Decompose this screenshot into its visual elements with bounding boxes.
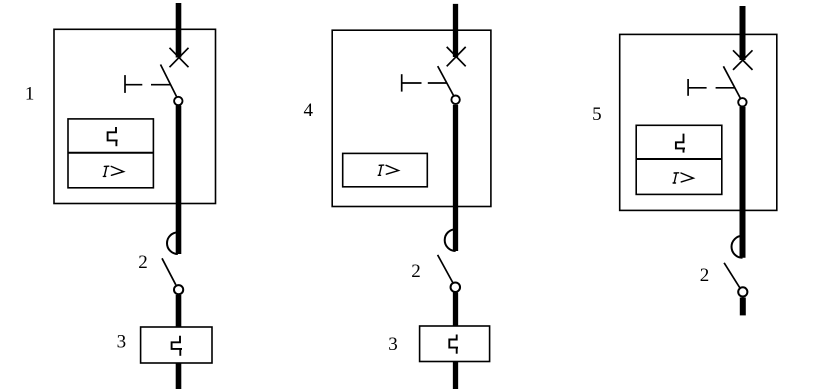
svg-text:3: 3 bbox=[388, 334, 398, 355]
svg-text:3: 3 bbox=[117, 331, 127, 352]
svg-text:4: 4 bbox=[304, 100, 314, 121]
svg-text:2: 2 bbox=[138, 252, 148, 273]
svg-text:2: 2 bbox=[700, 265, 710, 286]
svg-text:5: 5 bbox=[592, 104, 602, 125]
svg-text:1: 1 bbox=[25, 84, 35, 105]
svg-text:2: 2 bbox=[411, 261, 421, 282]
